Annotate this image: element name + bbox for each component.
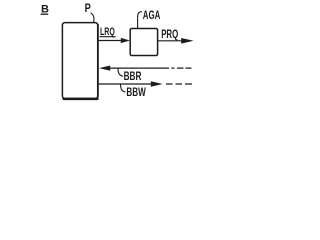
svg-text:P: P (85, 1, 91, 15)
svg-text:BBR: BBR (124, 69, 142, 83)
svg-text:AGA: AGA (143, 8, 161, 22)
svg-text:BBW: BBW (126, 85, 146, 99)
svg-text:PRQ: PRQ (161, 28, 178, 41)
